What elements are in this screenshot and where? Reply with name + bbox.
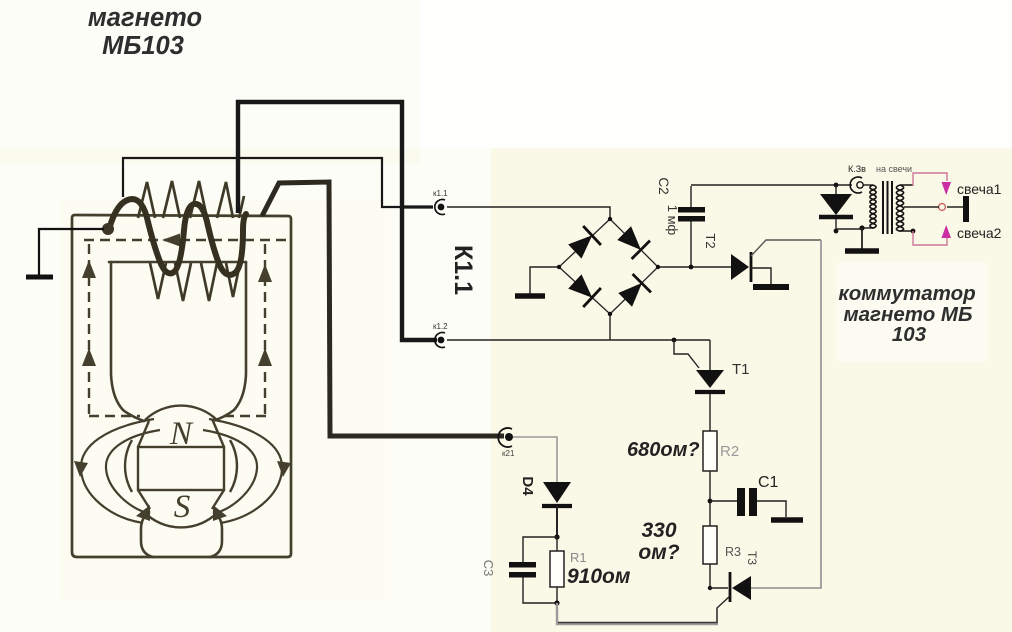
thyristor D5 top right (819, 183, 853, 234)
transistor T2 (731, 240, 821, 284)
bridge diode bottom-right (616, 274, 651, 309)
secondary top pink wire (913, 173, 947, 186)
svg-text:к21: к21 (502, 449, 515, 458)
label коммутатор магнето МБ 103 (836, 262, 988, 362)
capacitor C3 (509, 562, 536, 578)
thick wire top loop (coil to K1.2) (238, 102, 437, 340)
ignition coil connector К.Зв (850, 177, 863, 193)
magnet rect (138, 447, 224, 490)
field arrows (74, 461, 291, 521)
wire thyristor to primary bottom (836, 228, 862, 230)
dashed flux path (84, 240, 290, 416)
spark arrow down свеча1 (942, 182, 952, 195)
magnet top cap (138, 421, 224, 447)
ground at T2 (753, 284, 789, 290)
field line loops right (209, 419, 282, 523)
svg-text:S: S (174, 489, 191, 525)
wire K1.2 to T1 corner (447, 339, 710, 341)
spark gap circle (939, 204, 946, 211)
svg-text:C1: C1 (758, 474, 779, 491)
resistor R3 (703, 526, 717, 564)
svg-text:К1.1: К1.1 (449, 245, 477, 295)
connector K1.1 (435, 199, 445, 214)
svg-text:МБ103: МБ103 (102, 32, 184, 60)
lower pole left (141, 512, 153, 557)
svg-text:680ом?: 680ом? (627, 439, 700, 461)
background right cream (491, 148, 1012, 632)
svg-text:ом?: ом? (638, 541, 679, 564)
svg-text:свеча1: свеча1 (957, 181, 1002, 197)
lower pole right (210, 512, 222, 557)
wire К2 to D4 (513, 437, 557, 482)
resistor R2 (703, 431, 717, 471)
svg-text:свеча2: свеча2 (957, 225, 1002, 241)
node C1 tap (708, 499, 713, 504)
electrode bar (963, 196, 969, 222)
svg-text:Т2: Т2 (703, 233, 718, 248)
ground at bridge (515, 293, 545, 299)
top wire C2 to ignition connector (691, 184, 852, 186)
magneto frame outline (72, 215, 291, 557)
coil terminal blob (102, 223, 114, 235)
svg-text:1 мф: 1 мф (665, 205, 680, 236)
svg-text:C3: C3 (481, 560, 496, 577)
svg-text:R3: R3 (725, 545, 741, 559)
bridge diode top-left (566, 226, 601, 261)
transformer core (883, 181, 892, 234)
coil thin zigzag upper (138, 181, 244, 301)
ground at transformer (845, 225, 879, 251)
node above R1 (554, 534, 559, 539)
field line loops left (81, 419, 282, 523)
magnet bottom cap (138, 490, 224, 509)
transformer secondary coil (896, 185, 913, 231)
coil thick winding rope (110, 199, 246, 275)
cream patches left (0, 148, 420, 164)
svg-text:330: 330 (641, 519, 676, 542)
bridge diode bottom-left (566, 272, 601, 307)
flux arrows (82, 234, 272, 367)
bottom wire to T3 emitter (557, 603, 718, 624)
connector K1.2 (435, 333, 445, 348)
thyristor T1 (672, 338, 725, 431)
wire K1.1 to bridge top (447, 207, 610, 219)
resistor R1 (550, 537, 564, 603)
thick wire terminal 2 to К2 (262, 182, 504, 436)
capacitor C2 (678, 186, 705, 269)
thin wire coil to K1.1 (123, 158, 433, 207)
svg-text:103: 103 (892, 323, 927, 346)
wire R2 to node (709, 471, 711, 526)
core beam bottom line (109, 261, 246, 264)
svg-text:коммутатор: коммутатор (838, 282, 975, 305)
connector К2 (498, 428, 513, 447)
coil thin zigzag lower (150, 263, 240, 301)
rotor circle (125, 406, 237, 528)
svg-text:Т1: Т1 (732, 361, 750, 378)
svg-text:910ом: 910ом (567, 565, 631, 588)
node below R1 (554, 600, 559, 605)
core window left vertical (111, 262, 144, 421)
wire ground to bridge left node (530, 267, 559, 294)
svg-text:R2: R2 (720, 443, 739, 460)
svg-text:C2: C2 (656, 177, 671, 194)
background top strip white (420, 0, 1012, 148)
spark arrow up свеча2 (942, 225, 952, 238)
svg-text:к1.1: к1.1 (433, 189, 448, 198)
svg-text:D4: D4 (519, 476, 536, 496)
ground left of magneto (26, 229, 104, 277)
transformer TR primary coil (862, 185, 876, 228)
right gray loop wire (751, 240, 821, 588)
svg-text:К.Зв: К.Зв (848, 164, 866, 174)
title магнето МБ103 (88, 4, 202, 60)
svg-text:магнето: магнето (88, 4, 202, 32)
C3 branch wires (523, 537, 557, 603)
capacitor C1 (710, 488, 803, 520)
secondary bottom pink wire (911, 229, 947, 245)
tap wire to circle (904, 206, 964, 208)
diode D4 (542, 482, 572, 537)
svg-text:R1: R1 (570, 550, 587, 565)
svg-text:N: N (169, 416, 194, 452)
svg-text:к1.2: к1.2 (433, 322, 448, 331)
wire bridge right node to T2 (658, 266, 731, 268)
svg-text:Т3: Т3 (745, 551, 759, 565)
bridge diode top-right (615, 224, 650, 259)
diode bridge frame (559, 219, 658, 314)
transistor T3 (708, 564, 751, 623)
core window right vertical (213, 262, 246, 421)
svg-text:на свечи: на свечи (876, 164, 912, 174)
bridge node dots (557, 217, 660, 316)
wire bridge bottom node down (609, 314, 611, 340)
